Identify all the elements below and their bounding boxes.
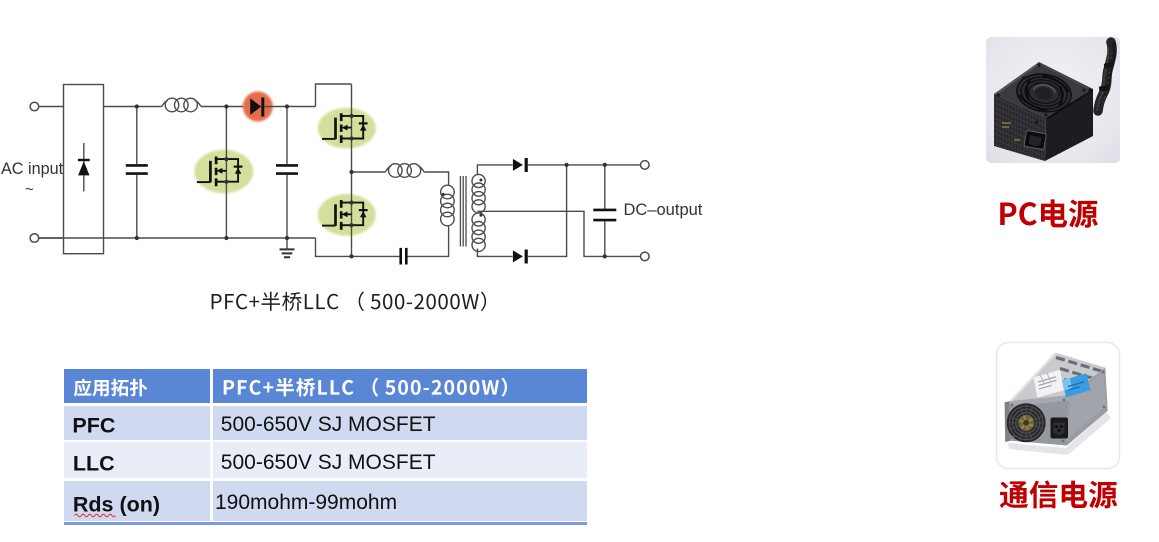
junction: C4 positive rail: [603, 163, 607, 167]
wire: PFC MOSFET drain-source leg: [225, 107, 227, 239]
MOSFET Q2 (half-bridge high side): [322, 113, 368, 143]
circuit schematic: PFC + half-bridge LLC converter: [0, 0, 710, 330]
junction: C2 top rail: [285, 104, 289, 108]
rectifier diode D2: [513, 159, 523, 171]
transformer T1 secondary phase dots: [479, 179, 482, 182]
wire: bottom rail: [39, 237, 316, 239]
application table: [64, 369, 210, 403]
capacitor C1 input filter: [136, 107, 138, 165]
transformer T1 primary winding: [441, 185, 455, 226]
AC input terminal top: [30, 102, 39, 111]
transformer T1 primary phase dot: [442, 193, 445, 196]
transformer T1 core: [460, 176, 466, 247]
AC input terminal bottom: [30, 234, 39, 243]
bridge rectifier BR1 box: [64, 85, 104, 254]
MOSFET Q3 (half-bridge low side): [322, 200, 368, 230]
inductor L1 PFC choke: [162, 98, 201, 112]
junction: D3 branch on positive rail: [565, 163, 569, 167]
wire: half-bridge vertical leg: [351, 84, 353, 256]
wire: D3 cathode up to positive rail: [528, 165, 567, 257]
wire: secondary bottom to rectifier diode D3: [477, 249, 512, 257]
junction: Q1 drain top rail: [224, 104, 228, 108]
wire: D2 cathode along positive output rail: [528, 164, 641, 166]
transformer T1 secondary top winding: [472, 174, 485, 213]
DC output terminal positive: [641, 161, 650, 170]
junction: C4 negative rail: [603, 254, 607, 258]
wire: bottom rail step into half-bridge: [316, 238, 352, 256]
junction: C2 bottom rail / ground node: [285, 236, 289, 240]
wire: top rail bridge to PFC inductor: [104, 106, 162, 108]
junction: half-bridge midpoint node: [349, 170, 353, 174]
boost diode highlight circle: [243, 92, 273, 122]
capacitor C3 series resonant: [401, 248, 407, 265]
capacitor C4 output filter: [604, 165, 606, 209]
junction: C1 bottom rail: [135, 236, 139, 240]
wire: AC bottom terminal to bridge: [39, 237, 64, 239]
wire: top rail riser into half-bridge: [316, 84, 352, 107]
DC output terminal negative: [641, 252, 650, 261]
wire: primary bottom to resonant capacitor: [407, 226, 448, 257]
wire: L2 to transformer primary top: [424, 172, 448, 186]
wire: D1 cathode to half-bridge riser: [265, 106, 316, 108]
wire: C3 to half-bridge bottom: [352, 255, 400, 257]
wire: half-bridge midpoint to resonant inductor: [352, 171, 386, 173]
wire: secondary top to rectifier diode D2: [477, 165, 512, 175]
half-bridge low-side MOSFET highlight ellipse: [318, 194, 376, 236]
wire: AC top terminal to bridge: [39, 106, 64, 108]
capacitor C2 PFC bulk output: [286, 107, 288, 165]
transformer T1 secondary bottom winding: [472, 213, 485, 252]
junction: C1 top rail: [135, 104, 139, 108]
ground symbol at C2: [286, 238, 288, 249]
PFC MOSFET highlight ellipse: [194, 150, 253, 194]
inductor L2 resonant: [385, 164, 424, 178]
wire: center tap to negative output rail: [477, 211, 640, 256]
half-bridge high-side MOSFET highlight ellipse: [318, 108, 376, 149]
boost diode D1: [250, 98, 261, 115]
junction: Q1 source bottom rail: [224, 236, 228, 240]
rectifier diode D3: [513, 250, 523, 262]
wire: L1 to boost diode node: [201, 106, 243, 108]
bridge rectifier BR1 internal diode: [83, 143, 85, 192]
junction: half-bridge bottom node: [349, 254, 353, 258]
MOSFET Q1 (PFC switch): [197, 157, 243, 187]
